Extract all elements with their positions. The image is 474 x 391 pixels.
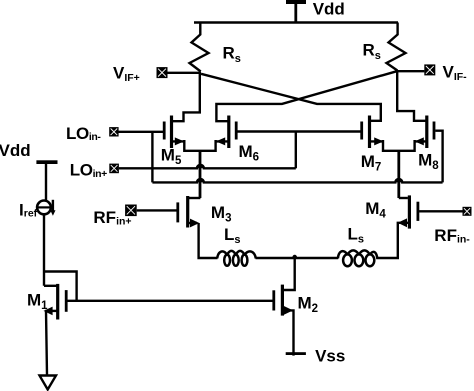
svg-text:Vdd: Vdd [313, 0, 345, 18]
svg-text:Iref: Iref [19, 200, 38, 219]
svg-text:LOin-: LOin- [66, 124, 101, 143]
svg-text:M5: M5 [161, 146, 182, 168]
svg-text:Rs: Rs [223, 44, 241, 66]
svg-text:Ls: Ls [224, 225, 241, 246]
svg-text:M8: M8 [418, 150, 439, 172]
svg-text:Ls: Ls [348, 225, 365, 246]
svg-text:LOin+: LOin+ [70, 161, 107, 180]
svg-text:M7: M7 [361, 152, 382, 174]
svg-text:VIF-: VIF- [443, 63, 468, 84]
svg-text:Vdd: Vdd [0, 141, 31, 160]
svg-text:M3: M3 [211, 203, 232, 225]
svg-text:M4: M4 [365, 199, 386, 221]
svg-text:M6: M6 [239, 142, 260, 164]
svg-text:VIF+: VIF+ [113, 64, 140, 85]
svg-text:M2: M2 [298, 294, 319, 316]
svg-text:M1: M1 [27, 291, 48, 313]
svg-text:Vss: Vss [315, 347, 345, 366]
svg-text:RFin-: RFin- [434, 226, 470, 245]
svg-text:Rs: Rs [363, 41, 381, 63]
